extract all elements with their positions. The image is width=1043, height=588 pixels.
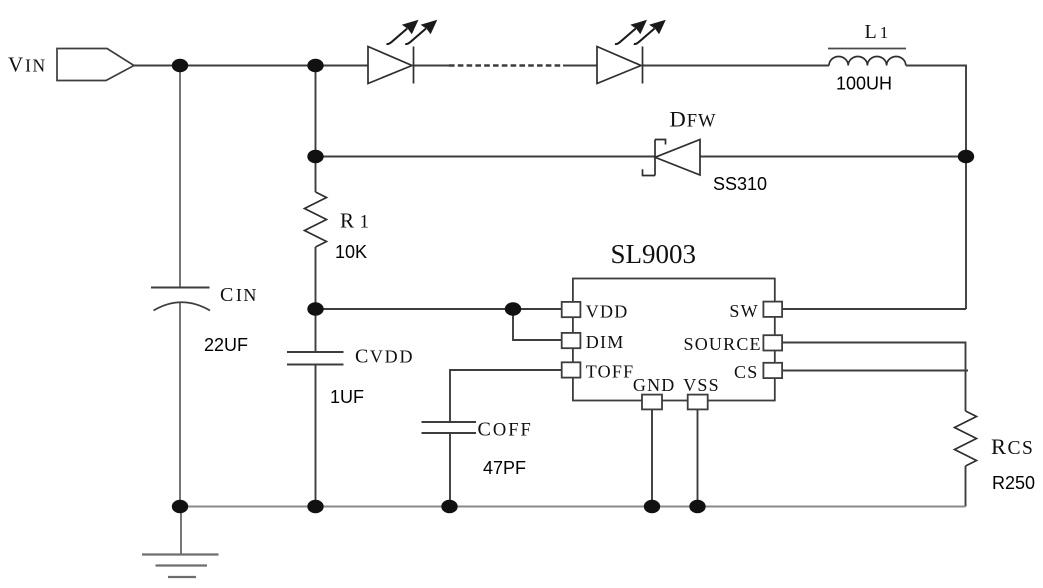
svg-text:10K: 10K <box>335 242 367 262</box>
svg-text:1UF: 1UF <box>330 387 364 407</box>
svg-text:TOFF: TOFF <box>586 361 635 381</box>
svg-text:SW: SW <box>729 301 758 321</box>
svg-text:CIN: CIN <box>220 284 258 306</box>
svg-text:COFF: COFF <box>478 419 533 441</box>
svg-text:GND: GND <box>633 375 676 395</box>
svg-text:R250: R250 <box>992 473 1035 493</box>
svg-text:L1: L1 <box>865 21 889 43</box>
svg-text:DIM: DIM <box>586 332 625 352</box>
svg-text:SL9003: SL9003 <box>611 239 697 269</box>
svg-text:VIN: VIN <box>8 53 47 77</box>
svg-text:CS: CS <box>734 362 758 382</box>
svg-text:47PF: 47PF <box>483 458 526 478</box>
svg-text:SOURCE: SOURCE <box>684 334 762 354</box>
svg-text:22UF: 22UF <box>204 335 248 355</box>
svg-text:VSS: VSS <box>683 375 720 395</box>
svg-text:100UH: 100UH <box>836 74 892 94</box>
svg-text:CVDD: CVDD <box>355 346 414 368</box>
svg-text:RCS: RCS <box>991 434 1034 459</box>
svg-text:VDD: VDD <box>586 302 629 322</box>
svg-text:SS310: SS310 <box>713 174 767 194</box>
